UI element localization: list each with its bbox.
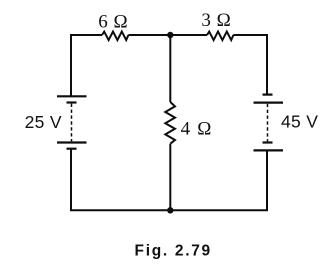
- wire top-middle run: [128, 34, 207, 36]
- svg-text:Fig. 2.79: Fig. 2.79: [135, 243, 212, 260]
- node top junction: [167, 32, 173, 38]
- B1 long plate top: [57, 95, 87, 97]
- B2 dashed cell ellipsis: [267, 104, 269, 142]
- svg-text:3 Ω: 3 Ω: [201, 10, 231, 31]
- B1 long plate bottom: [57, 141, 87, 143]
- B1 short plate bottom: [67, 148, 77, 150]
- B2 short plate bottom: [263, 141, 273, 143]
- resistor R 4 ohm: [165, 102, 175, 144]
- B2 long plate top: [254, 101, 284, 103]
- B1 dashed cell ellipsis: [71, 104, 73, 142]
- wire top-right run (top wire + right upper wire): [233, 35, 267, 95]
- battery B2 45 V: [254, 95, 284, 151]
- battery B1 25 V: [57, 96, 87, 148]
- node bottom junction: [167, 207, 173, 213]
- resistor R 6 ohm: [102, 32, 128, 40]
- svg-text:25 V: 25 V: [25, 112, 62, 132]
- wire bottom run (left lower wire + bottom wire + right lower wire): [71, 149, 267, 211]
- B2 short plate top: [263, 93, 273, 95]
- B1 short plate top: [67, 101, 77, 103]
- B2 long plate bottom: [254, 149, 284, 151]
- wire middle branch upper: [169, 35, 171, 102]
- wire middle branch lower: [169, 144, 171, 211]
- svg-text:4 Ω: 4 Ω: [181, 118, 213, 139]
- svg-text:45 V: 45 V: [281, 112, 318, 132]
- wire top-left run (left upper wire + top wire to 6-ohm): [71, 35, 102, 96]
- resistor R 3 ohm: [207, 32, 233, 40]
- svg-text:6 Ω: 6 Ω: [98, 11, 128, 32]
